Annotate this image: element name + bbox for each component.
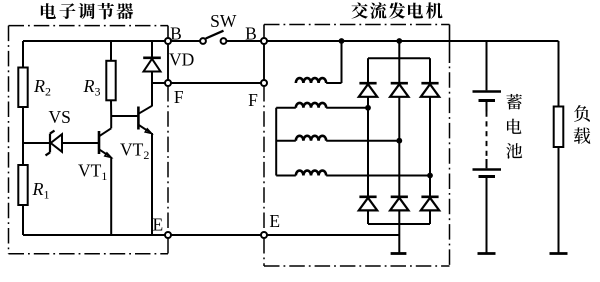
node F (regulator) bbox=[165, 80, 171, 86]
switch SW bbox=[200, 38, 206, 44]
generator box (dash-dot) bbox=[264, 24, 450, 26]
svg-text:R3: R3 bbox=[83, 76, 101, 99]
junction phase 3 bbox=[427, 173, 433, 179]
wire: zener branch at y=143 bbox=[23, 142, 99, 144]
rectifier column 2 bbox=[398, 58, 400, 83]
node E (generator) bbox=[261, 232, 267, 238]
zener diode VS bbox=[51, 134, 62, 152]
junction phase 1 bbox=[365, 105, 371, 111]
battery cell 1 short plate bbox=[479, 99, 496, 102]
svg-text:F: F bbox=[248, 90, 258, 110]
diode VD bbox=[151, 41, 153, 58]
svg-text:F: F bbox=[174, 87, 184, 107]
center column to ground bbox=[398, 224, 400, 254]
resistor R2 bbox=[18, 68, 27, 108]
label 交流发电机 bbox=[351, 2, 442, 18]
svg-text:B: B bbox=[245, 24, 257, 44]
node E (regulator) bbox=[165, 232, 171, 238]
label 蓄电池 bbox=[506, 94, 522, 159]
svg-text:VS: VS bbox=[49, 107, 71, 127]
node B (generator) bbox=[261, 38, 267, 44]
battery cell 1 long plate bbox=[473, 90, 502, 92]
diode D3 (top) bbox=[421, 82, 438, 85]
svg-text:VT2: VT2 bbox=[120, 139, 149, 162]
stator neutral rail bbox=[275, 108, 277, 176]
label 负载 bbox=[574, 105, 591, 144]
svg-text:SW: SW bbox=[210, 11, 237, 31]
transistor VT1 bbox=[98, 131, 101, 154]
diode D2 (top) bbox=[391, 82, 408, 85]
resistor R3 bbox=[110, 41, 112, 61]
rectifier top rail bbox=[368, 57, 430, 59]
svg-text:R1: R1 bbox=[32, 179, 50, 202]
stator coil 3 bbox=[276, 175, 296, 177]
wire: bottom E rail bbox=[23, 234, 399, 236]
label 电子调节器 bbox=[41, 3, 133, 20]
wire: F rail regulator to generator bbox=[152, 82, 264, 84]
stator coil 2 bbox=[276, 140, 296, 142]
load branch bbox=[558, 41, 560, 107]
transistor VT2 bbox=[137, 107, 140, 130]
diode D6 (bottom) bbox=[421, 196, 438, 199]
junction on B wire bbox=[339, 38, 345, 44]
diode D4 (bottom) bbox=[359, 196, 376, 199]
svg-text:B: B bbox=[170, 24, 182, 44]
svg-text:VD: VD bbox=[169, 50, 194, 70]
svg-text:E: E bbox=[269, 211, 280, 231]
battery cell 2 long plate bbox=[473, 168, 502, 170]
rectifier column 1 bbox=[367, 58, 369, 83]
wire: top B rail inside regulator bbox=[23, 40, 200, 42]
node B (regulator) bbox=[165, 38, 171, 44]
field winding (rotor coil) bbox=[296, 78, 326, 83]
resistor 负载 (load) bbox=[554, 107, 564, 148]
rectifier bottom rail bbox=[368, 223, 430, 225]
svg-text:E: E bbox=[152, 215, 163, 235]
node F (generator) bbox=[261, 80, 267, 86]
svg-text:VT1: VT1 bbox=[78, 161, 107, 184]
ground (rectifier) bbox=[391, 252, 407, 255]
wire: B wire from switch to battery/load corner bbox=[227, 40, 559, 42]
ground (load) bbox=[550, 252, 568, 255]
regulator box (dash-dot) bbox=[9, 25, 169, 27]
ground (battery) bbox=[478, 252, 496, 255]
diode D1 (top) bbox=[359, 82, 376, 85]
stator coil 1 bbox=[276, 107, 296, 109]
battery 蓄电池 bbox=[486, 41, 488, 90]
battery dashed link bbox=[486, 112, 488, 160]
left rail below R2 bbox=[22, 107, 24, 165]
junction on B wire at center column bbox=[396, 38, 402, 44]
rectifier column 3 bbox=[429, 58, 431, 83]
junction phase 2 bbox=[396, 138, 402, 144]
svg-text:R2: R2 bbox=[33, 76, 51, 99]
resistor R1 bbox=[18, 165, 27, 205]
diode D5 (bottom) bbox=[391, 196, 408, 199]
battery cell 2 short plate bbox=[479, 175, 496, 178]
